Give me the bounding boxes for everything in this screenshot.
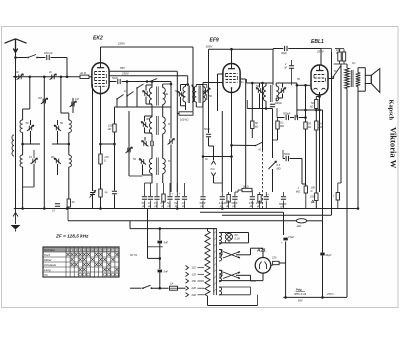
- core OT left: [350, 70, 352, 87]
- wire sw drop 2: [136, 88, 138, 107]
- wire C left top stub: [195, 85, 197, 87]
- svg-text:1A: 1A: [170, 282, 174, 286]
- wire EF9 right top link: [247, 82, 267, 84]
- node gang link top: [261, 82, 264, 85]
- wire stub2 resistor bottom 0.3M mid: [228, 201, 230, 209]
- svg-text:ZF = 128,5 kHz: ZF = 128,5 kHz: [55, 234, 89, 239]
- svg-text:Gr: Gr: [205, 157, 208, 161]
- wire sec bottom to speaker: [358, 90, 365, 92]
- wire A sec top link: [163, 83, 171, 85]
- trimmer on x171: [168, 139, 175, 145]
- wire trimA link: [146, 84, 152, 86]
- wire 16uF down: [322, 256, 324, 298]
- pilot lamp 6V 0.1A: [226, 233, 233, 240]
- wire after 220: [279, 262, 286, 264]
- inductor A secondary: [163, 88, 166, 105]
- stub 50ohm left: [238, 189, 242, 191]
- wire from pot top: [282, 150, 284, 159]
- wire x114 to bus: [114, 195, 116, 209]
- wire jog to coil L1: [23, 108, 30, 110]
- capacitor on x114: [112, 191, 117, 193]
- table x marks: [67, 253, 119, 271]
- resistor bottom 0.3M mid: [227, 195, 230, 203]
- svg-text:5nF: 5nF: [164, 241, 169, 245]
- wire STW link: [148, 257, 160, 259]
- stub tone: [339, 49, 341, 52]
- terminal tap 125: [186, 272, 189, 276]
- wire to coil L1 top: [22, 109, 24, 120]
- wire IF2 bottom link: [247, 108, 272, 110]
- core B left: [187, 86, 189, 104]
- EBL1 internal electrodes: [314, 75, 326, 82]
- wire 255V rail: [101, 46, 194, 48]
- wire trimE link: [143, 174, 153, 176]
- EK2 cathode lead: [100, 86, 102, 93]
- wire main ground bus: [14, 208, 358, 210]
- wire rect heater b: [219, 294, 251, 296]
- core A left: [156, 87, 158, 106]
- wire 165V rail: [209, 48, 274, 50]
- node cath line join: [304, 116, 307, 119]
- table header numbers: [67, 248, 119, 252]
- trimmer gang 2: [126, 147, 133, 153]
- winding HT upper: [219, 249, 222, 261]
- capacitor bottom row 1n: [148, 197, 153, 199]
- capacitor bottom 7-50: [250, 197, 255, 199]
- switch wave band 2: [127, 92, 134, 97]
- wire IF1 feed jog: [183, 84, 188, 86]
- wire PA down: [213, 146, 215, 160]
- wire B right top stub: [191, 85, 193, 87]
- resistor 220 ohm AZ1 output: [273, 261, 280, 264]
- svg-text:16µF: 16µF: [325, 253, 331, 257]
- wire fuse to tap 220: [178, 287, 186, 289]
- inductor E primary: [149, 159, 152, 174]
- wire trimD bottom link: [145, 132, 153, 134]
- trimmer C6 osc trim: [70, 101, 77, 107]
- svg-text:kΩ: kΩ: [308, 125, 311, 129]
- wire 30pF to EBL1 top: [288, 48, 321, 50]
- wire af jog: [302, 183, 306, 185]
- stub under tone res: [339, 61, 341, 64]
- table TA circles: [79, 273, 119, 276]
- trimmer on g3 return: [90, 193, 95, 195]
- capacitor 15uF: [283, 238, 287, 241]
- wire tone sw down: [340, 64, 342, 111]
- wire lamp stub2: [225, 240, 227, 243]
- wire 85V rail: [109, 70, 177, 72]
- wire primary top stub: [207, 229, 209, 231]
- wire tap 125 to primary: [198, 273, 205, 275]
- underline Polg: [296, 291, 306, 293]
- wire 250V rail: [109, 75, 188, 77]
- node B+ rail join: [284, 296, 287, 299]
- wire stub2 capacitor bottom 50nF mid: [202, 201, 204, 209]
- wire stub2 capacitor bottom row 0.1: [156, 201, 158, 209]
- table header row fill: [43, 247, 119, 252]
- trimmer A: [143, 91, 150, 97]
- wire gang link upper: [262, 83, 264, 150]
- wire stub capacitor bottom row 50nF a: [144, 183, 146, 196]
- svg-text:50nF: 50nF: [284, 152, 290, 156]
- capacitor 100pF antenna series: [47, 55, 49, 60]
- wire 50nF lead left: [283, 158, 285, 160]
- wire primary top: [346, 64, 348, 68]
- svg-text:Kapsch: Kapsch: [388, 100, 395, 121]
- fuse 1A: [170, 286, 178, 290]
- switching table frame: [43, 247, 119, 277]
- wire trimIF2 top link: [260, 82, 267, 84]
- wire padder up stub: [33, 150, 35, 158]
- wire stub2 capacitor bottom 0.1 mid: [221, 201, 223, 209]
- lamp top stub: [228, 232, 230, 235]
- svg-text:165V: 165V: [206, 44, 214, 48]
- wire trimB top link2: [181, 84, 184, 86]
- wire bottom link: [208, 305, 258, 307]
- trimmer C7 osc trim 2: [54, 125, 61, 131]
- wire osc section drop: [60, 77, 62, 113]
- terminal tap 150: [186, 279, 189, 283]
- node ant gnd: [21, 207, 24, 210]
- wire IF2 sec top link: [276, 82, 282, 84]
- svg-text:Ortstaste: Ortstaste: [44, 263, 57, 267]
- wire x114 down: [114, 132, 116, 191]
- wire 15uF drop: [283, 212, 285, 235]
- wire lamp top right: [226, 232, 249, 234]
- svg-text:kΩ: kΩ: [310, 105, 313, 109]
- svg-text:1µ: 1µ: [105, 190, 108, 194]
- svg-text:100: 100: [311, 186, 316, 190]
- wire IF2 top link: [266, 82, 273, 84]
- resistor second small: [342, 52, 345, 61]
- svg-text:1/50: 1/50: [249, 201, 255, 205]
- wire EBL1 anode inner: [319, 65, 321, 71]
- wire antenna to switch: [16, 57, 28, 59]
- wire link bottom caps: [145, 182, 153, 184]
- svg-text:240: 240: [191, 293, 197, 297]
- wire EF9 cathode inner: [231, 88, 233, 93]
- output transformer secondary zigzag: [356, 73, 361, 87]
- stub e1b: [265, 201, 267, 209]
- wire trimA up: [145, 85, 147, 91]
- wire down to 500pF line: [296, 85, 298, 117]
- wire stub resistor bottom row 0.3M: [163, 183, 165, 196]
- svg-text:Viktoria W: Viktoria W: [389, 127, 399, 169]
- wire gang 2 line: [128, 111, 130, 176]
- svg-text:50nF: 50nF: [231, 201, 237, 205]
- svg-text:500: 500: [164, 92, 169, 96]
- stub 1M top: [305, 184, 307, 186]
- wire AZ1 top lead: [262, 248, 264, 257]
- stub 50ohm: [251, 190, 253, 192]
- wire primary to EBL1 area: [334, 63, 347, 65]
- svg-text:65V: 65V: [298, 299, 303, 303]
- wire EBL1 cathode drop: [305, 85, 307, 192]
- core B right: [188, 86, 190, 104]
- wire sel1 out: [236, 254, 251, 256]
- capacitor 15pF near bus: [55, 204, 60, 206]
- capacitor 5nF upper: [158, 241, 163, 244]
- winding heater lamp: [219, 233, 222, 245]
- node gang ground: [43, 207, 46, 210]
- antenna: [5, 39, 27, 53]
- wire tap 240 to primary: [198, 294, 205, 296]
- svg-text:41 Ω: 41 Ω: [80, 71, 87, 75]
- wire L2 to ground bus: [22, 187, 24, 209]
- wire B+ bottom rail: [283, 296, 347, 298]
- svg-text:nF: nF: [284, 66, 287, 70]
- capacitor 50nF mixer: [118, 79, 120, 84]
- terminal tap 110: [186, 266, 189, 270]
- wire up stub: [333, 76, 335, 79]
- wire trimA bottom link: [146, 103, 152, 105]
- wire 85V drop: [176, 71, 178, 113]
- wire trim6 drop: [72, 98, 74, 113]
- svg-text:50nF: 50nF: [112, 76, 118, 80]
- svg-text:AZ1: AZ1: [256, 248, 266, 253]
- svg-text:50 Ω: 50 Ω: [243, 185, 249, 189]
- core C right: [199, 86, 201, 104]
- wire stub capacitor bottom row 1n: [150, 183, 152, 196]
- stub under tone res2: [343, 61, 345, 64]
- wire right col join: [331, 49, 333, 53]
- node chain rail join: [159, 227, 162, 230]
- inductor D primary: [149, 117, 152, 134]
- wire EK2 to 50nF: [109, 81, 116, 83]
- wire 2nF up: [291, 60, 293, 66]
- wire PA bottom down: [213, 176, 215, 183]
- wire stub capacitor electrolytic bottom row b: [176, 183, 178, 196]
- wire stub resistor bottom 0.1M: [259, 192, 261, 196]
- svg-text:50nF: 50nF: [200, 201, 206, 205]
- capacitor 50000 e2: [281, 197, 286, 199]
- wire rail to right col: [321, 48, 332, 50]
- wire EF9 g3 left link: [203, 82, 223, 84]
- wire to volume pot: [272, 140, 274, 158]
- capacitor bottom row 50nF a: [142, 197, 147, 199]
- svg-text:50nF: 50nF: [204, 127, 210, 131]
- wire B prim bottom: [185, 102, 187, 106]
- wire to L4 top: [68, 113, 70, 120]
- rectifier AZ1: [255, 258, 271, 274]
- wire right col long down: [331, 63, 333, 215]
- wire IF2 sec bottom stub: [275, 98, 277, 101]
- wire stub capacitor bottom 50nF mid: [202, 192, 204, 196]
- wire trimD link: [145, 115, 153, 117]
- chassis ground symbol: [15, 209, 17, 224]
- wire tap 110 to primary: [198, 267, 205, 269]
- resistor 50k right upper: [315, 100, 318, 109]
- wire stub capacitor bottom row c: [184, 183, 186, 196]
- svg-text:0,1: 0,1: [352, 61, 356, 65]
- svg-text:+50: +50: [104, 155, 109, 159]
- node x252 top: [251, 82, 254, 85]
- capacitor bottom 50nF mid: [200, 197, 205, 199]
- wire 500pF line left: [277, 117, 285, 119]
- wire PA mid: [208, 138, 210, 147]
- wire trimB up: [180, 85, 182, 92]
- resistor 40k on bus: [67, 199, 70, 207]
- inductor IF1 C right: [203, 87, 206, 103]
- wire EF9 anode side right: [240, 78, 246, 80]
- svg-text:500pF: 500pF: [283, 112, 291, 116]
- wire C top bridge: [196, 84, 203, 86]
- node 50k u to y110: [315, 109, 318, 112]
- wire trim top stub: [30, 120, 32, 125]
- svg-text:220: 220: [271, 256, 277, 260]
- wire avc long x203: [202, 100, 204, 192]
- wire avc res top: [277, 118, 279, 122]
- node EBL1 grid join: [304, 84, 307, 87]
- inductor D secondary: [163, 117, 166, 134]
- inductor L1 antenna coil upper: [20, 120, 23, 133]
- inductor A primary: [149, 88, 152, 105]
- wire heater link: [219, 280, 263, 282]
- wire capacitor to corner: [51, 57, 68, 59]
- svg-text:5µ: 5µ: [174, 201, 177, 205]
- wire x171 down: [170, 107, 172, 139]
- fuse inner line: [170, 287, 178, 289]
- svg-text:0,1A: 0,1A: [235, 237, 241, 241]
- inductor IF2 primary: [263, 86, 266, 101]
- wire left stub up: [246, 100, 248, 109]
- capacitor 30pF coupling: [285, 46, 287, 51]
- terminal P.A. top chevron: [211, 161, 215, 165]
- wire rail y221 left: [68, 220, 296, 222]
- wire trim7 bottom stub: [57, 131, 59, 144]
- wire 5nF chain top: [159, 229, 161, 240]
- wire stub2 capacitor bottom 50nF mid2: [234, 201, 236, 209]
- svg-text:250 V: 250 V: [326, 292, 334, 296]
- wire right col top: [331, 52, 333, 63]
- wire rail y228 to transformer: [130, 228, 216, 230]
- node cap drop junction: [66, 76, 69, 79]
- wire 50k top: [251, 111, 253, 121]
- wire stub2 capacitor bottom row 50nF a: [144, 201, 146, 209]
- wire L1 to L2: [22, 133, 24, 156]
- core OT right: [352, 70, 354, 87]
- wire PA line lower: [208, 111, 210, 133]
- wire mains to fuse: [152, 287, 169, 289]
- wire avc link y156: [203, 156, 232, 158]
- svg-text:5µ: 5µ: [167, 201, 170, 205]
- wire trimB top link: [183, 84, 186, 86]
- node L1 tap: [21, 143, 24, 146]
- wire gang link dashed: [262, 150, 264, 209]
- wire tap L1 bottom link: [23, 143, 40, 145]
- capacitor 16uF: [320, 253, 324, 256]
- trimmer E: [139, 159, 146, 165]
- trimmer D pad: [142, 141, 149, 147]
- wire D-E sec mid: [162, 134, 164, 159]
- resistor 50k: [251, 121, 254, 129]
- inductor L3 antenna primary: [12, 135, 14, 156]
- core IF2 right: [271, 85, 273, 102]
- wire rail y221 right: [307, 220, 323, 222]
- svg-text:255V: 255V: [117, 42, 126, 46]
- wire B prim to gnd line: [185, 106, 187, 110]
- resistor 50k on cathode drop: [304, 122, 307, 129]
- wire y144 link: [101, 143, 115, 145]
- svg-text:Schalter: Schalter: [44, 248, 56, 252]
- wire trim7 top stub: [57, 120, 59, 125]
- wire af grid down: [301, 159, 303, 185]
- trimmer C5 tuning gang 1: [41, 98, 48, 104]
- wire trimB down: [180, 97, 182, 106]
- svg-text:6V: 6V: [235, 233, 238, 237]
- wire 250V drop to IF1 top: [187, 76, 189, 85]
- node antenna junction: [14, 56, 17, 59]
- switch mains: [143, 285, 151, 288]
- node mains caps join: [159, 287, 162, 290]
- wire 250 to bus: [315, 201, 317, 209]
- wire IF2 sec top stub: [275, 83, 277, 86]
- core A right: [157, 87, 159, 106]
- wire trimIF2s down1: [282, 83, 284, 88]
- wire tap 150 to primary: [198, 280, 205, 282]
- capacitor bottom row 0.1: [154, 197, 159, 199]
- core IF2 left: [270, 85, 272, 102]
- wire resistor to EK2 grid: [89, 76, 92, 78]
- wire rail y215: [222, 214, 332, 216]
- capacitor 2nF: [289, 66, 294, 68]
- trimmer C4 padder: [31, 158, 38, 164]
- wire 2nF down: [291, 68, 293, 85]
- wire A to D left: [151, 105, 153, 118]
- wire sel2 bar: [221, 270, 223, 276]
- wire resistor left end: [177, 113, 179, 115]
- wire sec bottom: [357, 87, 359, 92]
- table grid lines: [43, 247, 119, 277]
- svg-text:EK2: EK2: [93, 36, 103, 42]
- wire EK2 g3 return down: [92, 84, 94, 191]
- inductor IF1 B left: [183, 87, 186, 103]
- wire STW drop: [147, 209, 149, 259]
- resistor 41 ohm grid stopper: [80, 75, 89, 78]
- power transformer primary zigzag: [205, 231, 210, 296]
- terminal tap 240: [186, 293, 189, 297]
- wire trimB bottom link: [181, 105, 186, 107]
- wire B+ down to rail: [285, 263, 287, 297]
- wire sec top up: [357, 68, 359, 73]
- switch wave band 4: [137, 84, 144, 88]
- wire mains left: [130, 287, 142, 289]
- svg-text:kΩ: kΩ: [255, 125, 258, 129]
- lamp bottom stub: [228, 240, 230, 243]
- node A top junction: [151, 80, 154, 83]
- resistor 50 ohm horizontal: [242, 188, 252, 191]
- wire 255V drop to screen resistor: [192, 47, 194, 111]
- node A sec to x171: [170, 83, 173, 86]
- svg-text:0,1M: 0,1M: [256, 201, 263, 205]
- inductor IF1 C left: [194, 87, 197, 103]
- capacitor electrolytic bottom row b: [175, 197, 180, 199]
- wire stub2 capacitor bottom 7-50: [251, 201, 253, 209]
- EBL1 diode plates: [314, 88, 326, 89]
- wire trimD down: [144, 128, 146, 134]
- node grid join 2: [296, 84, 299, 87]
- node IF1 feed: [186, 83, 189, 86]
- wire PA column upper: [208, 49, 210, 111]
- wire link y247: [148, 246, 163, 248]
- wire primary bottom long down to B+ rail: [346, 89, 348, 298]
- wire long mid drop x222: [221, 111, 223, 192]
- EBL1 anode bar: [316, 70, 324, 72]
- resistor bias bottom: [99, 189, 102, 197]
- switch M: [256, 142, 263, 145]
- resistor 0.1M AVC: [276, 121, 279, 129]
- pentode EF9 envelope: [223, 64, 240, 93]
